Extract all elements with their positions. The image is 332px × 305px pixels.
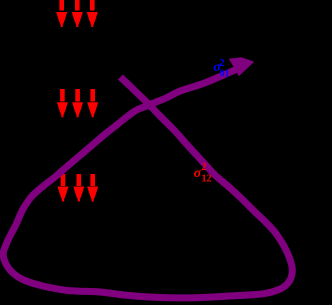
svg-text:2: 2 (202, 162, 207, 173)
arrow 1c (87, 0, 98, 27)
arrow 2a (57, 89, 68, 117)
purple looping curve (3, 68, 292, 298)
svg-text:12: 12 (202, 174, 212, 185)
arrow 3a (58, 174, 69, 202)
svg-text:σ: σ (194, 166, 202, 181)
arrow 1a (56, 0, 67, 27)
red load arrows group 3 (lower) (58, 174, 99, 202)
red load arrows group 2 (middle) (57, 89, 98, 117)
purple arrowhead (229, 57, 254, 76)
arrow 3c (87, 174, 98, 202)
arrow 1b (72, 0, 83, 27)
arrow 2b (72, 89, 83, 117)
svg-text:01: 01 (220, 69, 230, 80)
red label sigma^2_12 (194, 162, 212, 185)
svg-text:2: 2 (220, 58, 225, 69)
red load arrows group 1 (top) (56, 0, 98, 27)
arrow 3b (73, 174, 84, 202)
blue label sigma^2_01 (213, 58, 229, 80)
arrow 2c (87, 89, 98, 117)
